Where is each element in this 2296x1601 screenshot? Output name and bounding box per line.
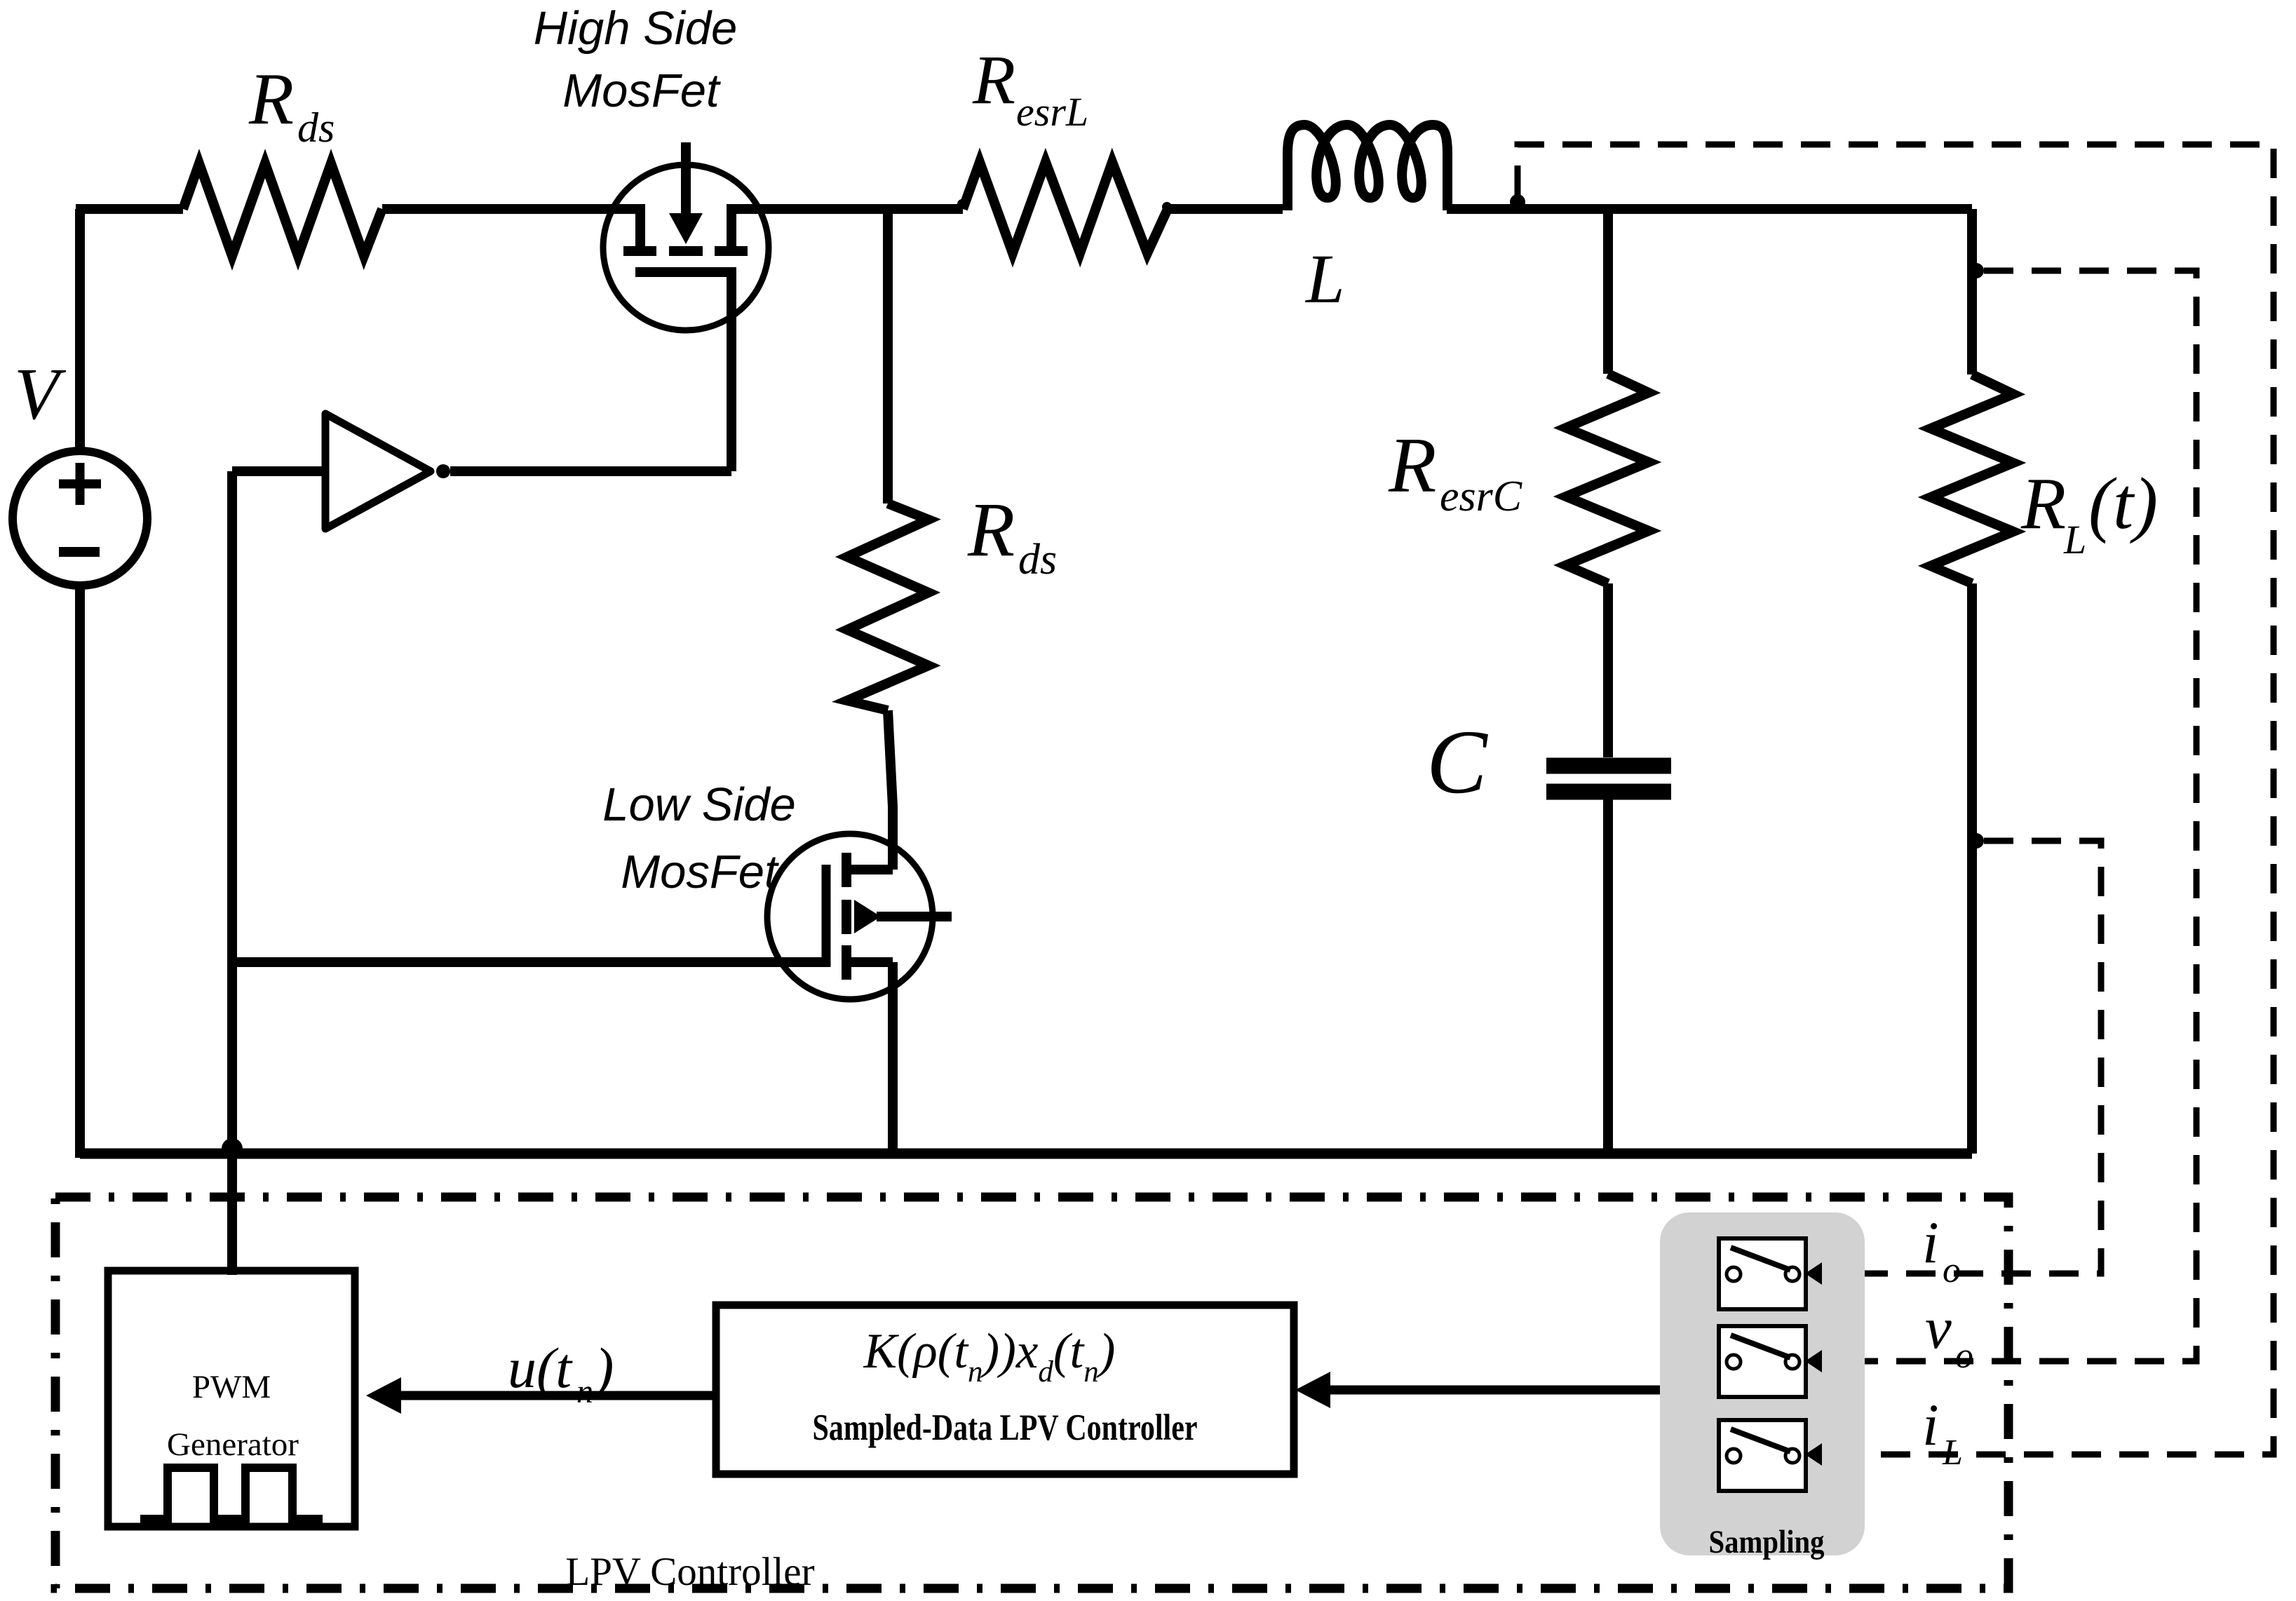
capacitor C xyxy=(1546,766,1671,792)
transistor low-side MOSFET xyxy=(767,834,952,999)
resistor Rds vertical (low side) xyxy=(847,504,928,710)
wire V top riser xyxy=(75,209,85,451)
svg-text:High Side: High Side xyxy=(534,2,738,55)
svg-text:ds: ds xyxy=(1018,536,1057,583)
svg-text:R: R xyxy=(1388,422,1436,509)
svg-text:(t): (t) xyxy=(2088,462,2158,544)
wire inverter output to gate xyxy=(450,466,731,476)
switch iL xyxy=(1719,1420,1806,1491)
resistor ResrC xyxy=(1566,374,1649,583)
svg-text:esrL: esrL xyxy=(1016,89,1088,135)
svg-text:Sampling: Sampling xyxy=(1709,1524,1825,1560)
svg-text:v: v xyxy=(1925,1295,1952,1361)
dashed sense lines xyxy=(1518,144,2274,1454)
svg-text:Sampled-Data LPV Controller: Sampled-Data LPV Controller xyxy=(813,1407,1198,1448)
wire vo dashed xyxy=(1826,271,2196,1361)
svg-text:R: R xyxy=(972,41,1015,119)
wire PWM vertical xyxy=(227,471,237,1275)
wire inverter input xyxy=(232,466,325,476)
svg-text:R: R xyxy=(2020,462,2066,544)
node io sense dot xyxy=(1969,833,1984,849)
svg-text:L: L xyxy=(1942,1433,1963,1473)
wire L to right corner xyxy=(1447,204,1972,214)
arrowhead into switch iL xyxy=(1805,1443,1822,1466)
svg-text:n: n xyxy=(576,1373,593,1410)
wire drain branch down xyxy=(883,209,893,504)
wire mosfet gate drop xyxy=(727,272,736,471)
wire mosfet right to junction to ResrL xyxy=(727,204,963,214)
wire capacitor to rail xyxy=(1603,799,1613,1154)
inverter U1 xyxy=(325,414,450,529)
sampled-data LPV controller box xyxy=(716,1305,1294,1474)
svg-text:i: i xyxy=(1922,1210,1939,1276)
switch vo xyxy=(1719,1326,1806,1397)
arrow sampling to controller xyxy=(1295,1372,1660,1408)
node PWM rail junction dot xyxy=(222,1138,243,1159)
transistor high-side MOSFET xyxy=(603,142,769,330)
wire RL branch xyxy=(1967,209,1977,374)
wire low side gate xyxy=(232,957,830,967)
resistor ResrL xyxy=(963,162,1168,253)
arrow controller to PWM xyxy=(366,1377,716,1414)
arrowhead into switch vo xyxy=(1805,1350,1822,1372)
wire RL to rail xyxy=(1967,583,1977,1154)
wire low mosfet source down xyxy=(888,962,898,1154)
wire ResrC to capacitor xyxy=(1603,583,1613,757)
arrowhead into switch io xyxy=(1805,1262,1822,1285)
svg-text:o: o xyxy=(1955,1336,1973,1376)
svg-text:o: o xyxy=(1943,1250,1961,1290)
PWM pulse icon xyxy=(140,1468,323,1519)
svg-text:Generator: Generator xyxy=(167,1426,299,1463)
svg-text:L: L xyxy=(1304,240,1345,318)
resistor Rds top-left xyxy=(183,163,382,256)
svg-text:MosFet: MosFet xyxy=(621,846,779,898)
wire ResrL to L xyxy=(1168,204,1283,214)
wire io dashed xyxy=(1826,841,2101,1274)
svg-text:L: L xyxy=(2063,517,2086,562)
wire Rds to high side mosfet xyxy=(382,204,645,214)
node vo sense dot xyxy=(1969,263,1984,278)
node ResrL right terminal nub xyxy=(1162,202,1172,212)
sampling block xyxy=(1660,1212,1865,1555)
node iL sense dot xyxy=(1510,194,1525,210)
switch io xyxy=(1719,1238,1806,1309)
svg-text:LPV Controller: LPV Controller xyxy=(565,1550,814,1594)
svg-text:esrC: esrC xyxy=(1440,473,1522,520)
wire ResrC branch top xyxy=(1603,209,1613,374)
wire iL dashed xyxy=(1518,144,2274,1454)
svg-text:R: R xyxy=(248,58,294,140)
PWM generator box xyxy=(108,1271,355,1527)
svg-text:MosFet: MosFet xyxy=(562,65,721,117)
resistor RL(t) xyxy=(1931,374,2013,583)
inductor L xyxy=(1288,125,1447,210)
wire top left xyxy=(76,204,183,214)
wire zigzag to low mosfet drain xyxy=(888,710,893,870)
wire V source bottom xyxy=(75,586,85,1158)
svg-text:C: C xyxy=(1426,712,1488,813)
svg-text:V: V xyxy=(14,353,67,435)
svg-text:PWM: PWM xyxy=(192,1369,271,1405)
LPV controller dash-dot box xyxy=(55,1197,2008,1588)
svg-text:i: i xyxy=(1922,1392,1939,1458)
svg-text:Low Side: Low Side xyxy=(602,778,796,831)
svg-text:R: R xyxy=(967,487,1015,572)
svg-text:u(t: u(t xyxy=(508,1336,573,1400)
svg-text:ds: ds xyxy=(297,104,335,151)
node ResrL left terminal nub xyxy=(957,199,967,209)
voltage source V xyxy=(13,451,147,586)
wire bottom rail xyxy=(80,1149,1972,1159)
svg-text:): ) xyxy=(592,1336,614,1400)
